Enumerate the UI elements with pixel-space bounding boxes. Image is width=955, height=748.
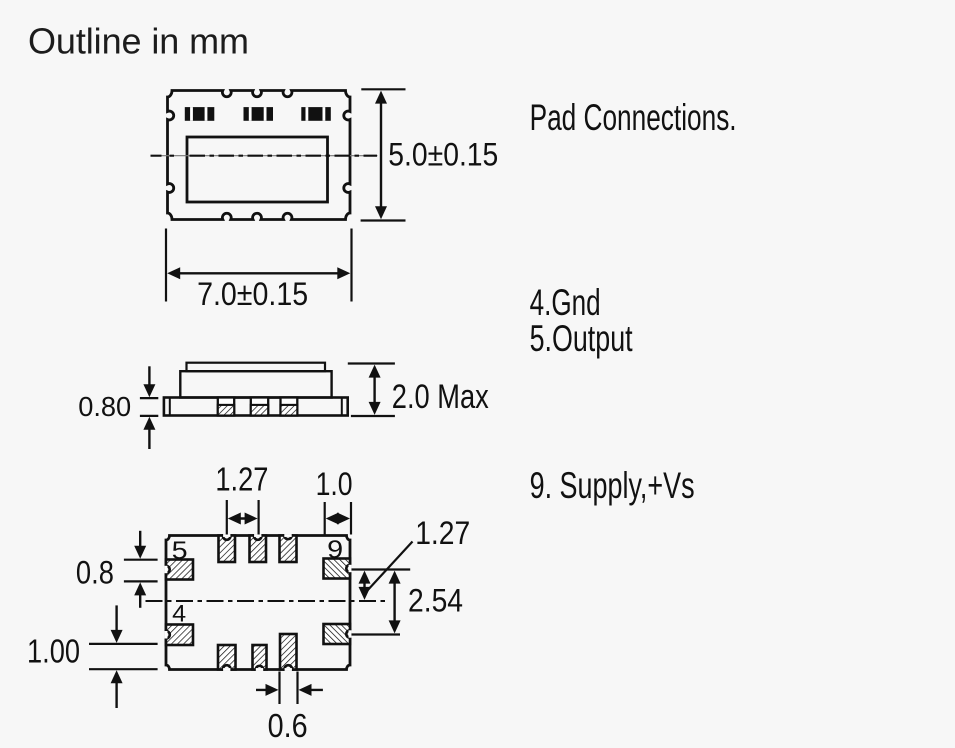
svg-text:9. Supply,+Vs: 9. Supply,+Vs	[530, 464, 695, 506]
svg-text:1.0: 1.0	[316, 466, 353, 502]
svg-text:1.27: 1.27	[415, 515, 470, 551]
svg-text:4: 4	[172, 601, 186, 628]
svg-text:1.00: 1.00	[27, 633, 80, 670]
svg-text:7.0±0.15: 7.0±0.15	[197, 276, 308, 312]
svg-text:5: 5	[172, 537, 188, 565]
svg-text:0.6: 0.6	[268, 707, 308, 744]
svg-text:9: 9	[327, 536, 343, 564]
svg-text:1.27: 1.27	[215, 460, 268, 497]
svg-text:5.0±0.15: 5.0±0.15	[388, 136, 498, 172]
svg-text:2.0 Max: 2.0 Max	[392, 378, 489, 416]
svg-text:0.8: 0.8	[76, 554, 114, 590]
svg-text:5.Output: 5.Output	[530, 317, 633, 359]
svg-text:Outline in mm: Outline in mm	[28, 21, 249, 62]
svg-text:2.54: 2.54	[408, 582, 463, 618]
svg-text:0.80: 0.80	[78, 391, 131, 422]
svg-text:Pad Connections.: Pad Connections.	[530, 96, 737, 138]
